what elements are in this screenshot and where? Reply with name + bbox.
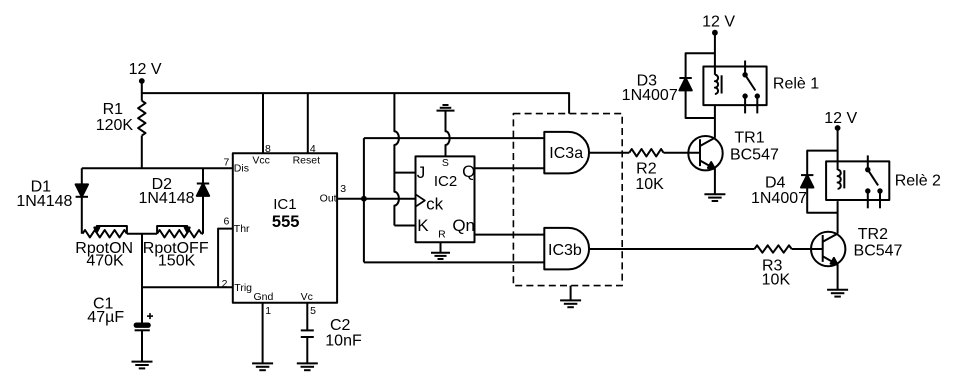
svg-text:Out: Out [320,193,337,205]
and-gate IC3a [544,132,589,174]
wire 12V to relay 2 coil top [837,128,839,170]
wire top 12V rail [142,93,569,114]
wire trigger line to IC1 pin 2 [142,286,233,288]
svg-text:Qn: Qn [452,216,475,235]
svg-text:Vc: Vc [301,291,313,303]
svg-text:10K: 10K [762,271,791,288]
wire Q output to IC3a input [475,167,545,169]
svg-text:R1: R1 [103,101,124,118]
resistor R1 [138,101,145,136]
wire 12V to relay 1 coil top [714,33,716,75]
wire threshold link (pin 6 to trigger line) [218,229,233,288]
wire pot wiper tap down to trigger line and C1 [141,234,143,324]
svg-text:12 V: 12 V [824,110,857,127]
node 12V supply (relay 1) : dot [712,30,718,36]
svg-text:555: 555 [272,213,300,231]
transistor TR1 [688,136,722,170]
diode D2 [197,168,209,234]
ground (IC1 pin 1) [252,362,273,364]
wire TR2 emitter to ground [837,265,839,290]
wire C1 to ground [141,330,143,361]
svg-text:ck: ck [426,195,444,214]
svg-text:4: 4 [310,143,316,155]
node 12V supply (relay 2) : dot [835,125,841,131]
svg-text:Thr: Thr [234,223,250,235]
wire pin 5 Vc to C2 [306,303,308,331]
potentiometer RpotOFF [157,226,201,237]
relay Relè 1 [703,61,766,114]
wire S pin up to inverted ground with hop [446,111,450,157]
wire J stub [394,172,415,174]
wire C2 to ground [306,337,308,363]
relay Relè 2 [826,155,889,208]
wire R3 to TR2 base [792,248,823,250]
wire pin 8 Vcc to 12V rail [262,93,264,153]
diode D1 [76,168,88,234]
resistor R3 [754,245,791,252]
wire IC3a output to R2 [589,152,629,154]
IC U1: IC1 555 timer body [233,153,337,303]
svg-text:Relè 2: Relè 2 [895,173,941,190]
svg-text:8: 8 [265,143,271,155]
svg-text:1: 1 [265,305,271,317]
wire discharge rail to IC1 pin 7 [82,167,233,169]
wire between potentiometers [127,233,157,235]
svg-text:IC1: IC1 [273,196,296,213]
junction node at Out [361,196,367,202]
svg-text:IC2: IC2 [434,173,457,190]
svg-text:Vcc: Vcc [252,155,270,167]
svg-text:10K: 10K [635,176,664,193]
wire TR1 collector to relay coil [714,105,716,138]
svg-text:R: R [438,228,446,240]
flip-flop IC2 body [416,156,475,242]
ground (C2) [297,362,318,364]
wire Out branch vertical [363,138,365,262]
svg-text:TR1: TR1 [734,129,764,146]
svg-text:Dis: Dis [234,163,249,175]
svg-text:12 V: 12 V [702,14,735,31]
wire Out branch to IC3a input A [364,137,544,139]
wire K stub [394,225,415,227]
svg-text:1N4007: 1N4007 [751,190,807,207]
wire IC3 package ground stub [570,286,572,301]
svg-text:D4: D4 [765,174,786,191]
wire Qn output to IC3b input [475,234,545,236]
svg-text:J: J [417,163,426,182]
svg-text:1N4007: 1N4007 [622,87,678,104]
svg-text:10nF: 10nF [325,333,362,350]
svg-text:K: K [417,216,429,235]
capacitor C1 [135,313,153,330]
wire RpotOFF to D2 bottom [202,233,204,235]
svg-text:TR2: TR2 [858,226,888,243]
wire Out branch to IC3b input B [364,261,544,263]
wire pin 4 Reset to 12V rail [307,93,309,153]
wire 12V node down to R1 top [141,81,143,101]
wire R2 to TR1 base [664,152,701,154]
ground (IC2 S, inverted) [437,110,455,112]
diode D4 flyback [801,151,838,213]
wire R1 bottom to discharge rail [141,136,143,169]
svg-text:7: 7 [224,156,230,168]
dashed package box IC3 [513,114,622,286]
svg-text:1N4148: 1N4148 [16,193,72,210]
ground (TR2) [827,289,848,291]
svg-text:Reset: Reset [293,155,321,167]
wire J/K pull-up vertical with hops [394,93,399,225]
svg-text:47µF: 47µF [87,309,124,326]
svg-text:Gnd: Gnd [253,291,273,303]
capacitor C2 [301,330,314,337]
svg-text:5: 5 [310,305,316,317]
ground (C1) [132,361,153,363]
wire pin 1 Gnd down [262,303,264,364]
wire TR2 collector to relay 2 coil [837,201,839,234]
svg-text:S: S [442,157,449,169]
svg-text:150K: 150K [158,253,196,270]
svg-text:470K: 470K [86,253,124,270]
ground (IC3 package) [560,299,581,301]
clock input triangle (IC2 ck) [416,194,425,206]
svg-text:1N4148: 1N4148 [138,190,194,207]
potentiometer RpotON [83,226,127,237]
and-gate IC3b [544,228,589,270]
transistor TR2 [811,232,845,266]
svg-text:Q: Q [462,162,475,181]
svg-text:BC547: BC547 [854,243,903,260]
svg-text:2: 2 [222,278,228,290]
svg-text:BC547: BC547 [730,146,779,163]
svg-text:Relè 1: Relè 1 [773,76,819,93]
svg-text:3: 3 [340,183,346,195]
svg-text:12 V: 12 V [129,61,162,78]
ground (IC2 R) [431,252,450,254]
svg-text:Trig: Trig [234,282,252,294]
node 12V supply (left) : dot [139,78,145,84]
svg-text:IC3a: IC3a [549,145,583,162]
diode D3 flyback [679,53,715,118]
svg-text:120K: 120K [96,117,134,134]
wire IC1 pin 3 Out to IC2 ck [337,198,415,200]
ground (TR1) [704,193,725,195]
svg-text:6: 6 [224,215,230,227]
svg-text:R2: R2 [636,161,657,178]
wire R pin down to ground [440,242,442,253]
svg-text:IC3b: IC3b [548,242,582,259]
wire TR1 emitter to ground [714,169,716,194]
resistor R2 [629,149,663,156]
wire IC3b output to R3 [589,248,754,250]
